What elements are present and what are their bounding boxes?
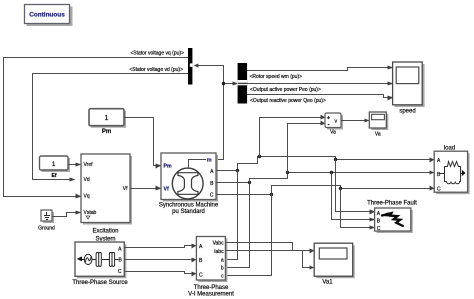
svg-text:<Output active power Peo (pu: <Output active power Peo (pu)>: [250, 87, 321, 93]
svg-text:pu Standard: pu Standard: [172, 209, 205, 215]
svg-text:C: C: [437, 186, 441, 192]
svg-text:Vq: Vq: [84, 194, 90, 200]
svg-text:Synchronous Machine: Synchronous Machine: [159, 203, 219, 209]
load block: [434, 146, 469, 195]
node arrow into fault A: [370, 210, 376, 215]
wire ground to excitation Vstab: [53, 213, 77, 217]
node junction phase B / fault B riser: [330, 171, 333, 174]
svg-text:Ef: Ef: [52, 173, 57, 179]
svg-text:Continuous: Continuous: [29, 12, 65, 19]
node vd arrow into excitation: [70, 178, 76, 182]
wire Va plus tap riser: [260, 118, 321, 157]
wire fault C riser: [341, 189, 371, 228]
svg-text:Va: Va: [375, 131, 381, 137]
bus selector B1 (stator voltages, mirrored): [188, 48, 192, 85]
svg-text:speed: speed: [399, 109, 415, 115]
ground block: [38, 210, 55, 232]
node arrow into excitation Vstab: [76, 211, 82, 215]
svg-text:Vf: Vf: [123, 186, 128, 192]
svg-text:m: m: [207, 157, 212, 163]
wire Va minus tap riser: [288, 124, 321, 173]
node arrow into Va1 input2: [310, 266, 315, 270]
node arrow into excitation Vref: [76, 163, 82, 167]
svg-text:Iabc: Iabc: [214, 249, 224, 255]
wire output active power Peo to scope: [248, 83, 389, 85]
bus selector B2 (speed/powers): [238, 63, 248, 104]
svg-text:V-I Measurement: V-I Measurement: [188, 292, 234, 298]
constant Ef: [40, 156, 71, 179]
svg-text:a: a: [221, 258, 224, 264]
wire Vabc to scope Va1 input1: [227, 243, 310, 251]
three-phase fault block: [367, 200, 417, 233]
node arrow into scope port3: [388, 96, 394, 101]
wire machine m to bus selectors: [199, 66, 234, 160]
scope Va: [369, 112, 388, 137]
wire rotor speed wm to scope: [248, 68, 389, 71]
wire phase B net (machine B to load B): [217, 173, 430, 183]
wire V-I c output riser: [227, 186, 272, 276]
svg-text:<Rotor speed wm (pu)>: <Rotor speed wm (pu)>: [250, 74, 303, 80]
node junction phase A / Va plus tap: [258, 155, 261, 158]
node arrow into load A: [430, 158, 435, 163]
svg-text:Pm: Pm: [102, 129, 111, 135]
voltage measurement Va: [325, 113, 343, 135]
node arrow into fault C: [370, 226, 376, 230]
node arrow into V-I B: [192, 258, 197, 263]
node arrow into load B: [430, 171, 435, 175]
svg-text:C: C: [118, 269, 122, 275]
node arrow into Va minus: [321, 121, 326, 126]
node arrow into V-I A: [192, 244, 197, 249]
wire source A to V-I A: [125, 246, 192, 248]
wire fault A riser: [336, 160, 371, 212]
svg-text:-: -: [328, 123, 330, 129]
node vq arrow into excitation: [76, 194, 82, 199]
wire vq feedback (bus selector out1 to excitation Vq): [4, 58, 189, 197]
svg-text:Vabc: Vabc: [213, 241, 225, 247]
node junction m branch: [222, 82, 225, 85]
wire phase A net (machine A to load A): [217, 157, 430, 171]
svg-text:Vref: Vref: [84, 162, 94, 168]
scope speed: [393, 62, 425, 115]
wire phase C net (machine C to load C): [217, 186, 430, 195]
svg-text:C: C: [199, 272, 203, 278]
excitation system block: [81, 154, 132, 243]
node arrow into machine Pm: [156, 164, 162, 169]
wire output reactive power Qeo to scope: [248, 95, 389, 98]
node arrow into scope port2: [388, 82, 394, 86]
svg-text:Vstab: Vstab: [84, 210, 97, 216]
svg-text:Excitation: Excitation: [92, 229, 118, 235]
node arrow into scope port1: [388, 66, 394, 70]
svg-text:Va1: Va1: [322, 280, 333, 286]
svg-text:Vf: Vf: [164, 186, 169, 192]
powergui Continuous: [25, 5, 73, 27]
node arrow into Va plus: [321, 115, 326, 120]
node junction phase C / V-I c riser: [270, 193, 273, 196]
node arrow into V-I C: [192, 272, 197, 277]
svg-text:<Stator voltage vd (pu)>: <Stator voltage vd (pu)>: [129, 67, 183, 73]
node junction phase A / fault A riser: [334, 158, 337, 161]
wire V-I b output riser: [227, 179, 250, 268]
node arrow into machine Vf: [156, 186, 162, 191]
svg-text:Pm: Pm: [164, 164, 172, 170]
three-phase source block: [72, 242, 128, 286]
wire fault B riser: [332, 173, 371, 220]
wire excitation Vf to machine Vf: [131, 188, 157, 190]
node arrow into load C: [430, 186, 435, 191]
node arrow into bus selector B2: [233, 82, 239, 86]
node arrow into scope Va: [365, 119, 370, 123]
wire Ef to excitation Vref: [69, 164, 77, 166]
node arrow into fault B: [370, 218, 376, 222]
svg-text:Three-Phase Source: Three-Phase Source: [72, 280, 128, 286]
node arrow into Va1 input1: [310, 249, 315, 254]
svg-text:b: b: [221, 266, 224, 272]
three-phase V-I measurement block: [188, 237, 234, 298]
svg-text:C: C: [377, 226, 381, 232]
node junction phase A / V-I a riser: [236, 169, 239, 172]
svg-text:1: 1: [52, 161, 56, 168]
svg-text:v: v: [335, 119, 338, 125]
svg-text:Three-Phase Fault: Three-Phase Fault: [367, 200, 417, 206]
wire source B to V-I B: [125, 259, 192, 261]
svg-text:Va: Va: [330, 129, 336, 135]
svg-text:<Stator voltage vq (pu)>: <Stator voltage vq (pu)>: [130, 51, 184, 57]
synchronous machine block: [159, 153, 219, 215]
svg-text:1: 1: [105, 115, 109, 122]
node junction phase B / V-I b riser: [248, 181, 251, 184]
wire vd feedback (bus selector out2 to excitation Vd): [33, 74, 189, 180]
wire Va to scope Va: [342, 120, 365, 122]
scope Va1: [314, 243, 355, 285]
wire Iabc to scope Va1 input2: [227, 251, 310, 268]
node arrow into bus selector B1: [194, 64, 199, 68]
svg-text:<Output reactive power Qeo (p: <Output reactive power Qeo (pu)>: [250, 98, 326, 104]
constant Pm: [89, 109, 126, 135]
svg-text:Ground: Ground: [38, 226, 55, 232]
svg-text:C: C: [210, 193, 214, 199]
wire V-I a output riser: [227, 171, 238, 260]
svg-text:Three-Phase: Three-Phase: [194, 285, 229, 291]
svg-text:Vd: Vd: [84, 177, 90, 183]
wire source C to V-I C: [125, 272, 192, 274]
wire Pm to machine: [125, 118, 157, 166]
node junction phase B / Va minus tap: [286, 171, 289, 174]
node junction phase C / fault C riser: [339, 187, 342, 190]
